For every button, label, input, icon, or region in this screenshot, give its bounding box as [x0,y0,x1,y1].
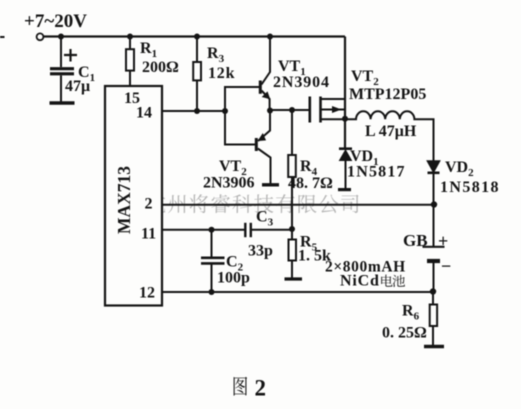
svg-text:R3: R3 [207,45,225,65]
svg-text:2N3906: 2N3906 [203,175,255,192]
resistor R6 0.25ohm [430,292,437,346]
node: C3 / R4 / R5 [289,226,295,232]
wire stub at left edge [0,36,5,38]
ground (R5) [285,277,303,280]
wire: top supply rail [44,35,345,37]
wire: gate drive [270,109,310,111]
svg-text:MAX713: MAX713 [114,166,134,234]
node: rail / R1 [127,34,133,40]
input terminal [37,33,44,40]
inductor L 47uH [345,111,434,161]
svg-text:2N3904: 2N3904 [273,74,330,91]
wire: pin14 to transistor bases [162,110,225,112]
svg-text:2: 2 [255,376,267,401]
transistor VT2 MTP12P05 (P-MOSFET) [310,97,345,123]
capacitor C1 47u [50,37,77,102]
node: rail / R3 [194,34,200,40]
node: base bracket junction [222,108,228,114]
svg-text:0. 25Ω: 0. 25Ω [382,325,427,342]
svg-text:L 47μH: L 47μH [365,123,417,140]
svg-text:−: − [441,256,451,276]
node: rail / VT1 collector [267,34,273,40]
resistor R1 200ohm [126,37,134,87]
wire: pin 11 with C3 in series [162,229,245,231]
svg-text:2: 2 [145,196,153,213]
transistor VT2 2N3906 [256,111,270,184]
resistor R3 12k [193,37,201,112]
diode VD2 1N5818 [428,161,440,204]
wire: base bracket [225,87,260,145]
resistor R5 1.5k [289,229,297,278]
node: VD2 / battery+ / pin2 [431,201,437,207]
caption 图2 [234,377,248,396]
svg-text:33p: 33p [248,243,273,260]
svg-text:12k: 12k [208,65,235,82]
svg-text:+: + [438,231,448,251]
ground (R6) [424,345,444,349]
node: gate wire / R4 [289,107,295,113]
svg-text:1. 5k: 1. 5k [298,248,331,265]
wire: pin 12 to battery minus [162,291,433,293]
svg-text:47μ: 47μ [65,78,90,95]
svg-text:VD2: VD2 [445,159,474,179]
svg-text:MTP12P05: MTP12P05 [349,86,426,103]
node: emitters junction [267,108,273,114]
node: R3 / pin14 wire [194,108,200,114]
capacitor C3 33p [245,223,292,237]
svg-text:1N5818: 1N5818 [440,179,500,196]
svg-text:GB: GB [403,231,428,250]
svg-text:R6: R6 [402,303,420,323]
ground (VD1) [338,188,351,191]
svg-text:48. 7Ω: 48. 7Ω [288,175,333,192]
ground (VT2 collector) [262,183,279,186]
node: pin12 wire / C2 [209,289,215,295]
svg-text:1N5817: 1N5817 [347,164,406,181]
node: pin11 wire / C2 [209,227,215,233]
node: switch node [342,116,348,122]
svg-text:NiCd: NiCd [340,273,380,290]
svg-text:12: 12 [139,285,155,302]
node: rail / C1 [58,34,64,40]
resistor R4 48.7ohm [288,110,296,229]
battery GB [423,205,445,292]
svg-text:200Ω: 200Ω [142,59,179,76]
wire: rail down through MOSFET to VD1 [344,37,346,149]
svg-text:14: 14 [136,105,152,122]
ground (C1) [50,101,75,104]
svg-text:VT2: VT2 [351,68,379,88]
capacitor C2 100p [201,230,225,292]
op-amp U1 MAX713 [105,86,162,306]
diode VD1 1N5817 [339,149,352,188]
watermark 杭州将睿科技有限公司 [146,194,359,213]
svg-text:+7~20V: +7~20V [24,11,87,32]
svg-text:100p: 100p [217,270,250,287]
transistor VT1 2N3904 [260,37,270,112]
svg-text:11: 11 [141,226,156,243]
svg-text:R1: R1 [140,40,157,60]
wire: pin 2 to battery plus [162,204,434,206]
node: battery- / pin12 / R6 [430,288,436,294]
